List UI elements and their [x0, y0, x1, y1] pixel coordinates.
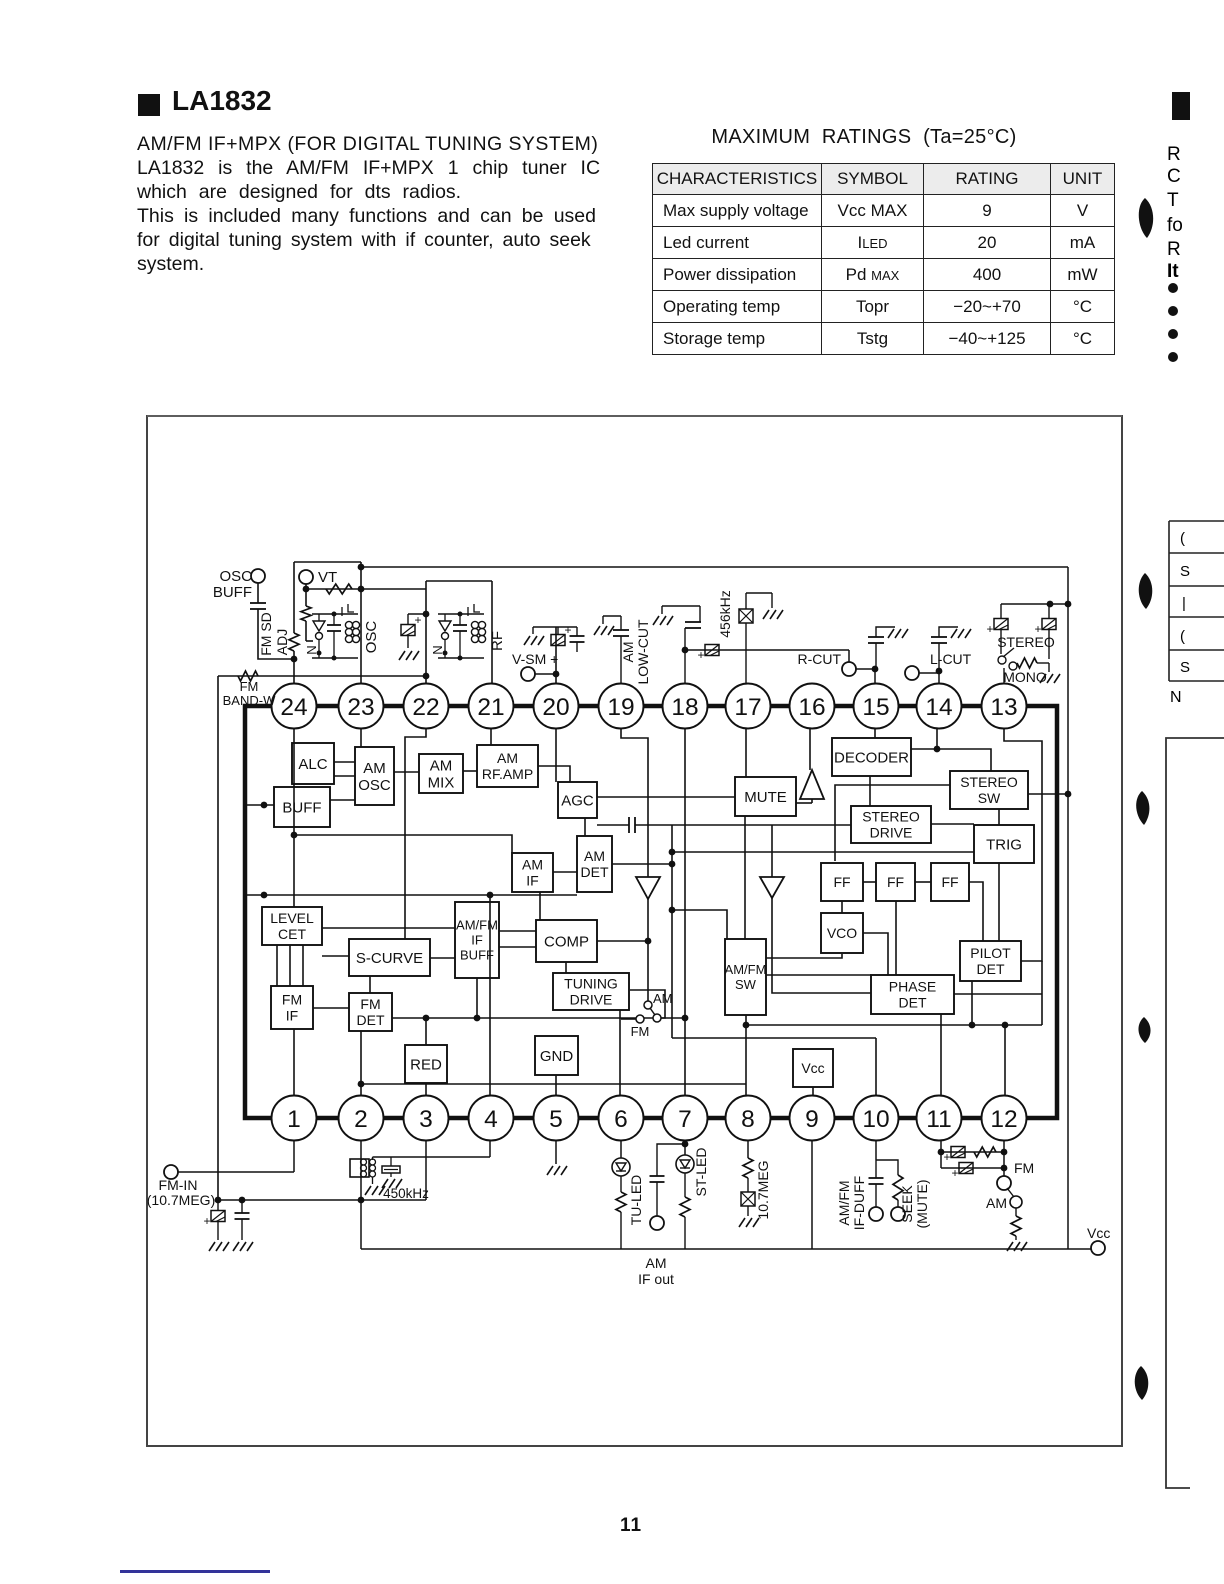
svg-text:AM/FM: AM/FM	[836, 1180, 852, 1225]
svg-text:SW: SW	[735, 977, 757, 992]
svg-text:T: T	[1167, 190, 1179, 211]
svg-text:IF: IF	[286, 1008, 298, 1024]
svg-text:MUTE: MUTE	[744, 789, 787, 806]
svg-text:IF: IF	[526, 873, 538, 889]
svg-text:FM: FM	[282, 991, 302, 1007]
svg-text:AM/FM: AM/FM	[456, 918, 498, 933]
svg-text:PILOT: PILOT	[970, 945, 1011, 961]
svg-text:FF: FF	[833, 874, 850, 890]
svg-text:OSC: OSC	[363, 621, 380, 654]
svg-text:S: S	[1180, 563, 1190, 580]
svg-text:+: +	[697, 648, 704, 662]
svg-text:STEREO: STEREO	[997, 634, 1055, 650]
svg-text:18: 18	[671, 694, 698, 721]
svg-text:AM: AM	[620, 642, 636, 663]
svg-text:V-SM +: V-SM +	[512, 651, 558, 667]
svg-text:3: 3	[419, 1106, 433, 1133]
svg-text:17: 17	[734, 694, 761, 721]
svg-text:22: 22	[412, 694, 439, 721]
svg-text:AM: AM	[584, 848, 605, 864]
svg-text:8: 8	[741, 1106, 755, 1133]
svg-text:GND: GND	[540, 1048, 574, 1065]
svg-text:12: 12	[990, 1106, 1017, 1133]
svg-text:OSC: OSC	[358, 777, 391, 794]
svg-text:IF-DUFF: IF-DUFF	[851, 1176, 867, 1230]
svg-text:STEREO: STEREO	[960, 774, 1018, 790]
svg-text:10: 10	[862, 1106, 889, 1133]
svg-text:ADJ: ADJ	[274, 629, 290, 655]
svg-text:BUFF: BUFF	[460, 948, 494, 963]
svg-text:2: 2	[354, 1106, 368, 1133]
svg-text:N: N	[1170, 689, 1182, 706]
svg-text:|: |	[1182, 595, 1186, 612]
svg-text:9: 9	[805, 1106, 819, 1133]
svg-text:DET: DET	[899, 995, 927, 1011]
svg-text:DRIVE: DRIVE	[870, 825, 913, 841]
svg-text:6: 6	[614, 1106, 628, 1133]
svg-text:MONO: MONO	[1003, 669, 1047, 685]
svg-text:FM: FM	[360, 996, 380, 1012]
svg-text:VCO: VCO	[827, 925, 857, 941]
svg-text:19: 19	[607, 694, 634, 721]
svg-text:(10.7MEG): (10.7MEG)	[147, 1192, 215, 1208]
svg-text:AGC: AGC	[561, 792, 594, 809]
svg-text:MIX: MIX	[428, 775, 455, 792]
svg-text:(: (	[1180, 530, 1185, 547]
svg-text:20: 20	[542, 694, 569, 721]
svg-text:PHASE: PHASE	[889, 978, 936, 994]
svg-text:+: +	[564, 623, 571, 637]
svg-text:ALC: ALC	[298, 756, 327, 773]
svg-text:STEREO: STEREO	[862, 808, 920, 824]
svg-text:(: (	[1180, 628, 1185, 645]
svg-text:456kHz: 456kHz	[717, 590, 733, 637]
svg-text:AM: AM	[363, 760, 386, 777]
svg-text:5: 5	[549, 1106, 563, 1133]
svg-text:24: 24	[280, 694, 307, 721]
svg-text:21: 21	[477, 694, 504, 721]
svg-text:SW: SW	[978, 790, 1001, 806]
svg-text:+: +	[203, 1214, 210, 1228]
svg-text:IF: IF	[471, 933, 483, 948]
svg-text:4: 4	[484, 1106, 498, 1133]
svg-text:+: +	[951, 1166, 958, 1180]
svg-text:FM: FM	[1014, 1160, 1034, 1176]
svg-text:AM/FM: AM/FM	[725, 962, 767, 977]
svg-text:TU-LED: TU-LED	[628, 1175, 644, 1226]
svg-text:S: S	[1180, 659, 1190, 676]
svg-text:RF.AMP: RF.AMP	[482, 766, 533, 782]
svg-text:TRIG: TRIG	[986, 836, 1022, 853]
svg-text:FM: FM	[240, 679, 259, 694]
svg-text:(MUTE): (MUTE)	[914, 1180, 930, 1229]
svg-text:S-CURVE: S-CURVE	[356, 950, 423, 967]
svg-text:BUFF: BUFF	[213, 584, 252, 601]
svg-text:DET: DET	[357, 1012, 385, 1028]
svg-text:TUNING: TUNING	[564, 975, 618, 991]
svg-text:13: 13	[990, 694, 1017, 721]
svg-text:DRIVE: DRIVE	[570, 992, 613, 1008]
svg-text:OSC: OSC	[219, 568, 252, 585]
svg-text:450kHz: 450kHz	[383, 1186, 429, 1201]
svg-text:DET: DET	[581, 864, 609, 880]
svg-text:AM: AM	[986, 1195, 1007, 1211]
svg-text:15: 15	[862, 694, 889, 721]
svg-text:FM-IN: FM-IN	[159, 1177, 198, 1193]
svg-text:AM: AM	[430, 757, 453, 774]
svg-text:Vcc: Vcc	[1087, 1225, 1110, 1241]
svg-text:LOW-CUT: LOW-CUT	[635, 619, 651, 685]
svg-text:+: +	[986, 622, 993, 636]
svg-text:7: 7	[678, 1106, 692, 1133]
svg-text:FM SD: FM SD	[258, 612, 274, 656]
svg-text:14: 14	[925, 694, 952, 721]
svg-text:LEVEL: LEVEL	[270, 910, 314, 926]
svg-text:R-CUT: R-CUT	[797, 651, 841, 667]
svg-text:AM: AM	[646, 1255, 667, 1271]
svg-text:It: It	[1167, 261, 1179, 282]
svg-text:BUFF: BUFF	[282, 799, 321, 816]
svg-text:AM: AM	[653, 991, 673, 1006]
svg-text:DET: DET	[977, 961, 1005, 977]
svg-text:L-CUT: L-CUT	[930, 651, 972, 667]
svg-text:AM: AM	[497, 750, 518, 766]
svg-text:SEEK: SEEK	[899, 1185, 915, 1223]
svg-text:CET: CET	[278, 926, 306, 942]
svg-text:1: 1	[287, 1106, 301, 1133]
svg-text:FF: FF	[887, 874, 904, 890]
svg-text:fo: fo	[1167, 215, 1183, 236]
svg-text:R: R	[1167, 239, 1181, 260]
svg-text:IF out: IF out	[638, 1271, 674, 1287]
svg-text:N: N	[430, 645, 445, 654]
svg-text:ST-LED: ST-LED	[693, 1147, 709, 1196]
svg-text:BAND-W: BAND-W	[223, 693, 276, 708]
svg-text:+: +	[943, 1150, 950, 1164]
svg-text:DECODER: DECODER	[834, 749, 909, 766]
svg-text:N: N	[304, 645, 319, 654]
svg-text:RED: RED	[410, 1056, 442, 1073]
svg-text:23: 23	[347, 694, 374, 721]
svg-text:FM: FM	[631, 1024, 650, 1039]
svg-text:AM: AM	[522, 856, 543, 872]
svg-text:Vcc: Vcc	[801, 1060, 824, 1076]
svg-text:COMP: COMP	[544, 933, 589, 950]
svg-text:10.7MEG: 10.7MEG	[755, 1160, 771, 1219]
svg-text:FF: FF	[941, 874, 958, 890]
svg-text:16: 16	[798, 694, 825, 721]
svg-text:VT: VT	[318, 569, 337, 586]
svg-text:C: C	[1167, 166, 1181, 187]
svg-text:+: +	[414, 613, 421, 627]
svg-text:11: 11	[926, 1106, 951, 1133]
svg-text:R: R	[1167, 144, 1181, 165]
